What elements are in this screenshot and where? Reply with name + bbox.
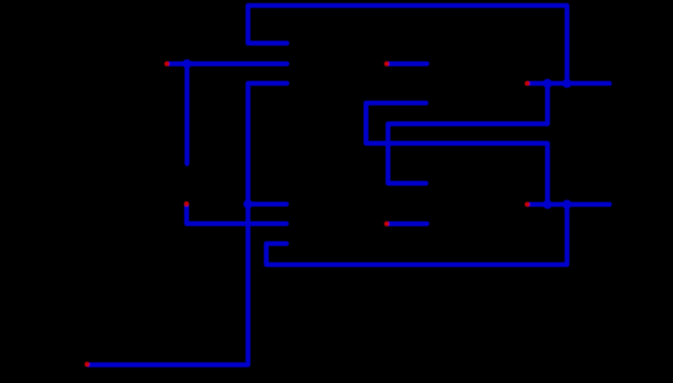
pin M1 gate (164, 61, 169, 66)
node M1 gate junction (182, 59, 191, 68)
pin M2 gate (184, 201, 189, 206)
wire Q4 output line (527, 202, 609, 207)
wire VDD rail: M1 drain plate up and across to Q3 collector (248, 6, 567, 84)
wire M2 drain plate (248, 202, 287, 207)
pin Q4 (525, 202, 530, 207)
wire cross-couple B (388, 83, 548, 183)
pin ground end (85, 362, 90, 367)
wire M1 gate (169, 61, 288, 66)
pin lower stub (384, 221, 389, 226)
node Q4 junction left (543, 200, 552, 209)
node Q3 junction left (543, 79, 552, 88)
node Q3 junction right (562, 79, 571, 88)
wire gate node drop (185, 64, 190, 164)
wire M1 source plate, centre rail and ground run (88, 83, 287, 365)
wire cross-couple A (366, 103, 548, 204)
wire Q3 output line (527, 81, 609, 86)
wire stub lower input (388, 221, 427, 226)
wire M2 gate (187, 205, 287, 224)
node Q4 junction right (562, 200, 571, 209)
wire stub upper input (388, 61, 427, 66)
node M2 drain junction (243, 200, 252, 209)
pin Q3 (525, 81, 530, 86)
wire M2 source to Q4 node (266, 204, 567, 264)
pin upper stub (384, 61, 389, 66)
